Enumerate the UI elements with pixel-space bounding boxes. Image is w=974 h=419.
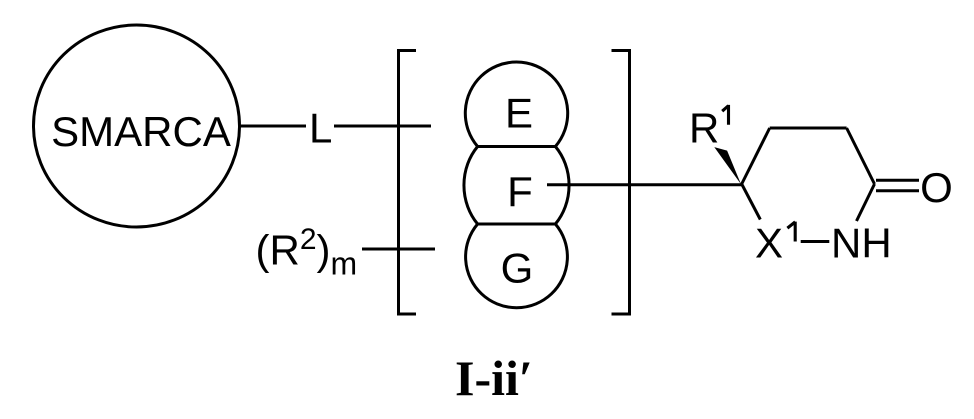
left bracket [399,51,417,315]
wire (R2)m to bracket [362,248,435,251]
wedge bond R1 [714,147,741,184]
bond C2-X1 [742,184,761,220]
svg-text:O: O [920,164,953,211]
wire L to bracket [334,125,431,128]
svg-text:(R2)m: (R2)m [256,223,358,282]
R1 superscript 1 [722,105,728,125]
svg-text:I-ii′: I-ii′ [455,350,533,406]
carbonyl double bond upper [876,179,919,182]
svg-text:G: G [501,245,534,292]
svg-text:L: L [309,105,332,152]
bond X1-NH [801,240,830,243]
svg-text:SMARCA: SMARCA [51,108,231,155]
wire F to piperidinone ring [547,183,742,186]
bond C2-C3 (left vertex to top-left) [742,128,770,184]
svg-text:E: E [505,90,533,137]
right bracket [612,51,630,315]
wire circle to L [241,125,306,128]
ring G [466,224,568,308]
bond C3-C4 (top) [770,127,847,130]
svg-text:NH: NH [831,220,892,267]
chord E/F [477,145,556,148]
bond C4-C5 (top-right to right vertex) [847,128,875,184]
carbonyl double bond lower [876,189,919,192]
chord F/G [477,223,556,226]
ring E [465,62,567,146]
svg-text:R: R [689,105,719,152]
svg-text:X: X [755,220,783,267]
ring F [464,147,569,225]
SMARCA circle [34,25,240,227]
svg-text:F: F [507,168,533,215]
bond C5-N [857,184,875,221]
X1 superscript 1 [787,222,795,242]
